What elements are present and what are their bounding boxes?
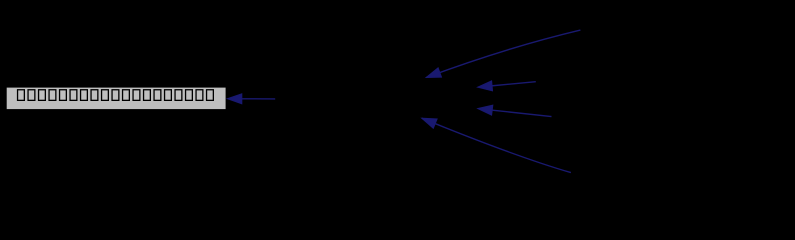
edge E2: right caller -> center node (short straight arrow)	[478, 81, 536, 91]
node: current function (grey filled box)	[6, 87, 226, 110]
edge E0: center node -> current function box (straight arrow)	[227, 94, 275, 104]
edge E1: top-right caller -> center node (curved arrow)	[426, 30, 580, 77]
edge E3: right caller -> center node (short straight arrow)	[478, 105, 552, 116]
edge E4: bottom-right caller -> center node (curved arrow)	[422, 118, 571, 172]
node label: 19 missing-glyph (tofu) rectangles	[18, 90, 214, 101]
